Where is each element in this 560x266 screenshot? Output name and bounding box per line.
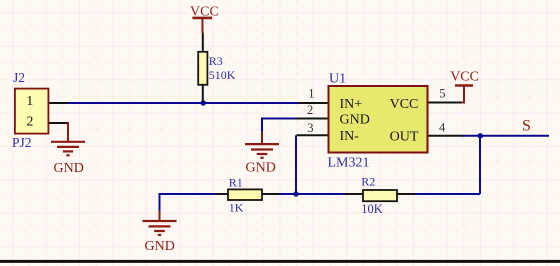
svg-text:1: 1 <box>308 86 314 100</box>
svg-text:4: 4 <box>439 121 446 135</box>
svg-text:510K: 510K <box>209 68 236 82</box>
svg-text:VCC: VCC <box>390 97 419 112</box>
svg-text:2: 2 <box>26 115 33 130</box>
svg-text:3: 3 <box>307 121 313 135</box>
svg-text:10K: 10K <box>361 202 383 216</box>
svg-text:GND: GND <box>54 161 84 176</box>
svg-text:IN-: IN- <box>340 129 360 144</box>
svg-text:R1: R1 <box>229 175 243 189</box>
svg-text:2: 2 <box>307 103 313 117</box>
svg-text:GND: GND <box>340 112 370 127</box>
svg-text:5: 5 <box>439 86 445 100</box>
svg-text:VCC: VCC <box>450 69 479 84</box>
svg-text:IN+: IN+ <box>340 97 363 112</box>
svg-text:OUT: OUT <box>390 129 419 144</box>
svg-text:1K: 1K <box>229 201 244 215</box>
svg-text:R3: R3 <box>209 54 223 68</box>
svg-text:U1: U1 <box>329 71 346 86</box>
svg-text:GND: GND <box>145 239 175 254</box>
svg-text:S: S <box>522 118 531 135</box>
svg-text:LM321: LM321 <box>328 156 370 171</box>
svg-text:VCC: VCC <box>190 5 219 20</box>
svg-text:PJ2: PJ2 <box>12 135 32 150</box>
svg-text:R2: R2 <box>361 175 375 189</box>
svg-text:J2: J2 <box>13 70 25 85</box>
svg-text:1: 1 <box>26 94 33 109</box>
svg-text:GND: GND <box>246 161 276 176</box>
